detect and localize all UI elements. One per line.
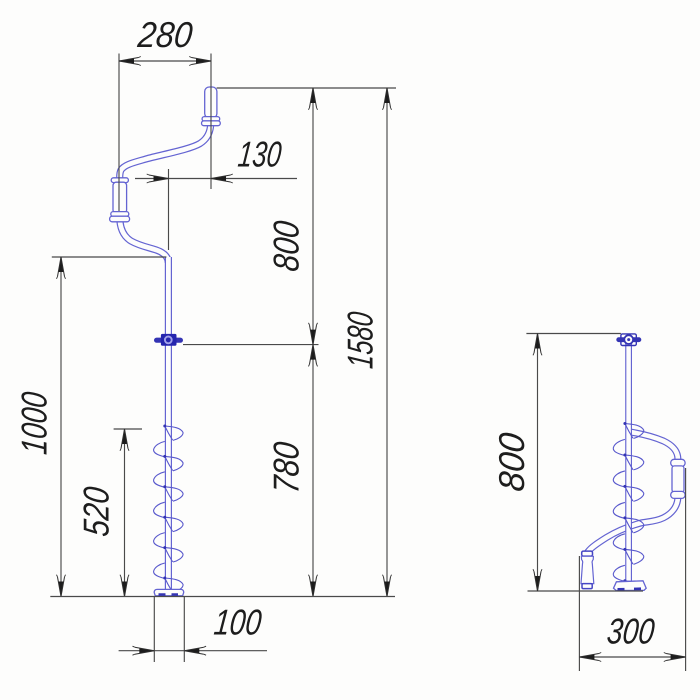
folded crank tube upper (right view) <box>629 432 678 460</box>
crank lower bend tube (left view) <box>120 216 169 263</box>
svg-text:280: 280 <box>135 14 194 55</box>
top handle grip (left view) <box>205 87 217 118</box>
lower handle grip (left view) <box>111 178 128 183</box>
extension line 100 left <box>153 597 155 662</box>
shaft tube (right view) <box>625 341 632 582</box>
svg-text:800: 800 <box>491 431 532 493</box>
cutting blade plate (left view) <box>154 589 184 595</box>
dimension line 800 (left view) <box>312 88 314 345</box>
ground line (left view) <box>50 596 395 598</box>
shaft tube (left view) <box>165 257 172 590</box>
extension line 280 right / 130 right <box>210 54 212 190</box>
extension line 300 left <box>578 556 580 671</box>
folded crank tube lower (right view) <box>587 498 678 556</box>
dimension line 1000 <box>60 257 62 597</box>
dimension line 130 <box>135 178 297 180</box>
cutting blade plate (right view) <box>614 581 647 591</box>
extension line 280 left <box>118 54 120 212</box>
extension line 100 right <box>183 597 185 662</box>
svg-text:100: 100 <box>212 602 263 643</box>
collar reference line <box>183 344 319 346</box>
wing-bolt collar (left view) <box>154 338 183 343</box>
reference line 1000 top <box>52 256 167 258</box>
dimension line 100 <box>119 650 267 652</box>
svg-text:1580: 1580 <box>340 310 381 370</box>
svg-text:1000: 1000 <box>14 390 55 456</box>
top reference line (right view) <box>526 333 621 335</box>
tick 520 top <box>114 428 142 430</box>
dimension line 300 <box>579 656 685 658</box>
handle grip (right view) <box>671 459 685 466</box>
dimension line 520 <box>124 429 126 597</box>
svg-text:780: 780 <box>266 440 307 495</box>
wing nut pivot (right view) <box>616 337 641 342</box>
crank S-tube (left view) <box>120 124 211 178</box>
svg-text:800: 800 <box>266 219 307 273</box>
centerline shaft ext (130 left) <box>168 169 170 250</box>
dimension line 1580 <box>386 88 388 597</box>
svg-text:520: 520 <box>76 485 117 538</box>
dimension line 280 <box>119 60 211 62</box>
top reference line <box>217 87 396 89</box>
dimension line 780 <box>312 345 314 597</box>
svg-text:130: 130 <box>236 134 283 175</box>
svg-text:300: 300 <box>605 611 656 652</box>
extension line 300 right <box>685 468 687 671</box>
ground line (right view) <box>528 590 644 592</box>
end knob (right view) <box>582 551 593 556</box>
dimension line 800 (right view) <box>537 334 539 592</box>
